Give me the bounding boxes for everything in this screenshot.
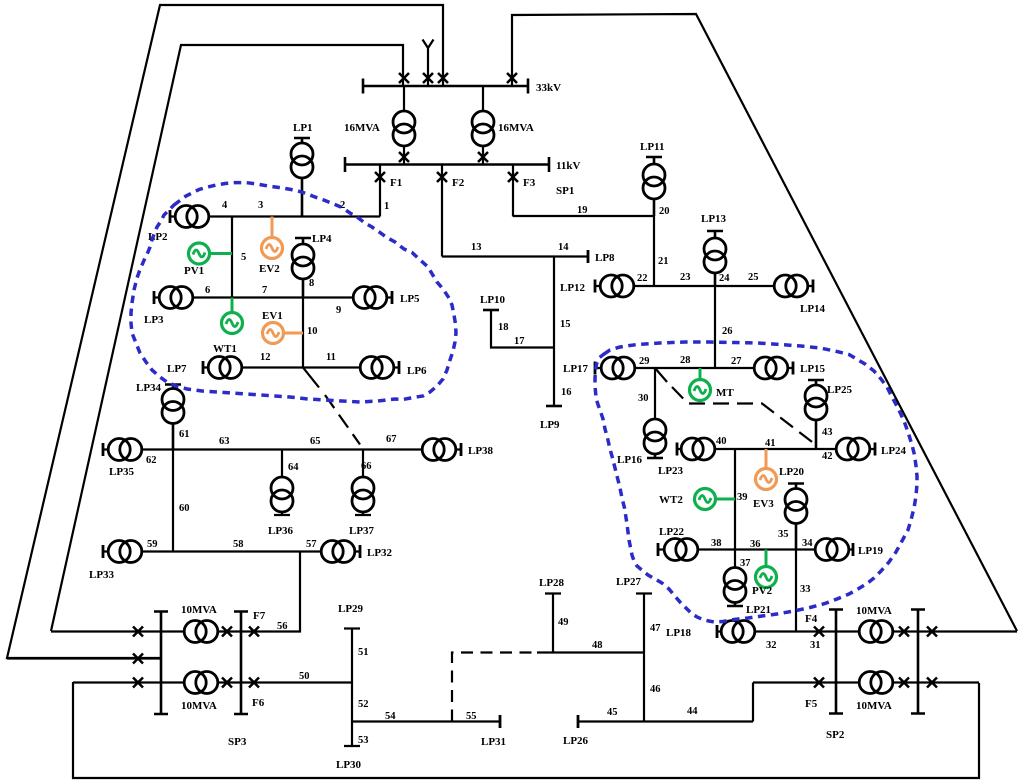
- breaker F3: [508, 165, 518, 217]
- wire line 60: [172, 450, 174, 552]
- svg-text:42: 42: [822, 451, 833, 462]
- svg-text:LP16: LP16: [617, 454, 643, 466]
- transformer T2 16MVA: [472, 86, 494, 164]
- svg-text:9: 9: [336, 305, 341, 316]
- svg-text:EV3: EV3: [753, 498, 774, 510]
- wire feeder bus 54-55: [352, 720, 500, 722]
- svg-text:23: 23: [680, 272, 691, 283]
- wire outer boundary top-right loop: [512, 14, 1017, 631]
- load LP34: [162, 385, 184, 450]
- load LP33: [103, 541, 142, 563]
- EV3 source: [756, 449, 777, 490]
- wire line 17-18: [491, 310, 554, 348]
- svg-text:10MVA: 10MVA: [181, 700, 217, 712]
- svg-text:LP30: LP30: [336, 759, 362, 771]
- wire line 26: [714, 286, 716, 368]
- load LP6: [360, 357, 399, 379]
- load LP31 terminal: [499, 715, 501, 728]
- svg-text:LP10: LP10: [480, 294, 506, 306]
- load LP4: [292, 238, 314, 298]
- svg-text:58: 58: [233, 539, 244, 550]
- svg-text:LP21: LP21: [746, 604, 771, 616]
- wire feeder bus 40-41-42: [677, 448, 875, 450]
- svg-text:13: 13: [471, 242, 482, 253]
- breaker F7 X left: [133, 627, 143, 637]
- svg-text:30: 30: [638, 393, 649, 404]
- node SP3 busbar right: [234, 612, 248, 715]
- svg-text:LP36: LP36: [268, 525, 294, 537]
- svg-text:63: 63: [219, 436, 230, 447]
- svg-text:27: 27: [731, 356, 742, 367]
- load LP17: [595, 357, 635, 379]
- transformer SP3 top 10MVA: [184, 621, 259, 643]
- wire feeder bus 22-25: [595, 285, 813, 287]
- breaker X middle stub: [133, 654, 143, 664]
- wire line 10: [302, 298, 304, 368]
- wire feeder bus 61-67: [103, 448, 461, 450]
- svg-text:40: 40: [716, 436, 727, 447]
- svg-text:LP5: LP5: [400, 293, 420, 305]
- microgrid boundary left (blue dashed): [131, 183, 456, 402]
- svg-text:65: 65: [310, 436, 321, 447]
- svg-text:4: 4: [222, 200, 228, 211]
- wire inner boundary top-left loop: [51, 45, 403, 631]
- svg-text:24: 24: [719, 273, 730, 284]
- svg-text:39: 39: [737, 492, 748, 503]
- svg-text:43: 43: [822, 427, 833, 438]
- svg-text:EV2: EV2: [259, 263, 280, 275]
- svg-text:32: 32: [766, 640, 777, 651]
- svg-text:LP11: LP11: [640, 141, 664, 153]
- svg-text:57: 57: [306, 539, 317, 550]
- load LP19: [815, 539, 853, 561]
- load LP26 terminal: [577, 715, 579, 728]
- load LP5: [353, 287, 392, 309]
- svg-text:LP3: LP3: [144, 314, 164, 326]
- load LP16: [644, 419, 666, 458]
- breaker F5: [814, 678, 824, 688]
- svg-text:LP9: LP9: [540, 419, 560, 431]
- svg-text:16MVA: 16MVA: [344, 122, 380, 134]
- svg-text:12: 12: [260, 352, 271, 363]
- transformer T1 16MVA: [393, 86, 415, 164]
- wire line 20-21: [653, 216, 655, 286]
- svg-text:LP8: LP8: [595, 252, 615, 264]
- wire outer boundary top-left loop: [7, 5, 443, 658]
- load LP8: [554, 250, 588, 263]
- svg-text:44: 44: [687, 706, 698, 717]
- load LP22: [658, 539, 698, 561]
- svg-text:LP22: LP22: [659, 526, 685, 538]
- load LP25: [805, 380, 827, 449]
- svg-text:LP33: LP33: [89, 569, 115, 581]
- svg-text:WT1: WT1: [213, 343, 237, 355]
- svg-text:LP34: LP34: [136, 382, 162, 394]
- svg-text:53: 53: [358, 735, 369, 746]
- svg-text:52: 52: [358, 699, 369, 710]
- svg-text:F4: F4: [805, 613, 818, 625]
- svg-text:19: 19: [577, 205, 588, 216]
- svg-text:8: 8: [309, 278, 314, 289]
- svg-text:50: 50: [299, 671, 310, 682]
- svg-text:LP27: LP27: [616, 576, 642, 588]
- wire middle stub row: [7, 657, 161, 659]
- svg-text:LP13: LP13: [701, 213, 727, 225]
- wire feeder bus 6-7-9: [154, 296, 392, 298]
- wire feeder bus 1-2-3-4: [170, 215, 380, 217]
- svg-text:WT2: WT2: [659, 494, 683, 506]
- svg-text:41: 41: [765, 438, 776, 449]
- wire feeder bus 45-44: [578, 720, 753, 722]
- wire grid infeed arrow: [423, 40, 434, 87]
- svg-text:31: 31: [810, 640, 821, 651]
- microgrid boundary right (blue dashed): [595, 342, 917, 622]
- svg-text:15: 15: [560, 319, 571, 330]
- svg-text:5: 5: [241, 252, 246, 263]
- svg-text:67: 67: [386, 434, 397, 445]
- breaker F6 X left: [133, 678, 143, 688]
- wire feeder bus 12-11: [203, 366, 399, 368]
- svg-text:LP1: LP1: [293, 122, 313, 134]
- wire tie 55-48 dashed: [452, 653, 537, 722]
- wire line 19: [513, 215, 655, 217]
- svg-text:10MVA: 10MVA: [856, 605, 892, 617]
- wire tie 12-66 dashed: [303, 368, 360, 445]
- load LP12: [595, 275, 634, 297]
- load LP1: [291, 138, 313, 217]
- svg-text:14: 14: [558, 242, 569, 253]
- svg-text:LP20: LP20: [779, 466, 805, 478]
- svg-text:21: 21: [658, 256, 669, 267]
- load LP24: [836, 438, 875, 460]
- svg-text:64: 64: [288, 462, 299, 473]
- transformer SP2 top 10MVA: [859, 621, 937, 643]
- svg-text:66: 66: [361, 461, 372, 472]
- wire tie 29-43 dashed: [655, 368, 816, 445]
- wire step bus44 to F5 row: [752, 683, 754, 722]
- wire feeder bus 59-58-57: [103, 550, 360, 552]
- EV2 source: [262, 217, 283, 259]
- svg-text:16MVA: 16MVA: [498, 122, 534, 134]
- wire line 13: [442, 255, 554, 257]
- svg-text:38: 38: [711, 538, 722, 549]
- load LP37 line 66: [352, 450, 374, 516]
- svg-text:LP29: LP29: [338, 603, 364, 615]
- load LP15: [754, 357, 793, 379]
- load LP3: [154, 287, 193, 309]
- wire bus 51-52-53: [344, 629, 360, 747]
- svg-text:37: 37: [740, 558, 751, 569]
- svg-text:LP38: LP38: [468, 445, 494, 457]
- svg-text:LP24: LP24: [881, 445, 907, 457]
- load LP23: [677, 438, 715, 460]
- load LP7: [203, 357, 242, 379]
- svg-text:F1: F1: [390, 177, 402, 189]
- svg-text:36: 36: [750, 539, 761, 550]
- EV1 source: [263, 323, 304, 344]
- svg-text:F2: F2: [452, 177, 465, 189]
- svg-text:LP37: LP37: [349, 525, 375, 537]
- svg-text:LP14: LP14: [800, 303, 826, 315]
- breaker X on 33kV bus feed 3: [438, 73, 448, 83]
- wire feeder 50 row F6: [73, 681, 352, 683]
- node 11kV busbar SP1: [345, 157, 549, 172]
- svg-text:20: 20: [659, 206, 670, 217]
- svg-text:25: 25: [748, 272, 759, 283]
- svg-text:17: 17: [514, 336, 525, 347]
- svg-text:51: 51: [358, 647, 369, 658]
- breaker F1: [375, 165, 385, 217]
- svg-text:LP32: LP32: [367, 547, 393, 559]
- svg-text:7: 7: [262, 285, 267, 296]
- wire feeder bus 38-36-34: [658, 548, 853, 550]
- load LP9 terminal: [546, 405, 562, 407]
- wire line 15-16: [553, 257, 555, 407]
- svg-text:11kV: 11kV: [556, 160, 581, 172]
- svg-text:LP23: LP23: [658, 465, 684, 477]
- svg-text:10MVA: 10MVA: [181, 604, 217, 616]
- svg-text:F6: F6: [252, 697, 265, 709]
- svg-text:LP17: LP17: [563, 363, 589, 375]
- wire line 39-37: [734, 449, 736, 568]
- node 33kV busbar: [363, 79, 528, 94]
- wire feeder F5 row: [753, 681, 979, 683]
- load LP14: [774, 275, 813, 297]
- MT source: [690, 368, 711, 401]
- WT1 source: [222, 298, 243, 334]
- svg-text:54: 54: [385, 711, 396, 722]
- svg-text:LP31: LP31: [481, 736, 506, 748]
- wire line 5: [231, 217, 233, 298]
- svg-text:LP4: LP4: [312, 233, 332, 245]
- PV2 source: [756, 550, 777, 588]
- breaker F2: [437, 165, 447, 257]
- svg-text:55: 55: [466, 711, 477, 722]
- svg-text:34: 34: [802, 538, 813, 549]
- svg-text:F5: F5: [805, 698, 818, 710]
- svg-text:SP1: SP1: [556, 185, 574, 197]
- svg-text:MT: MT: [716, 387, 734, 399]
- svg-text:LP12: LP12: [560, 282, 586, 294]
- svg-text:SP3: SP3: [228, 736, 247, 748]
- load LP10 terminal: [483, 309, 499, 311]
- svg-text:LP25: LP25: [827, 384, 853, 396]
- svg-text:LP28: LP28: [539, 577, 565, 589]
- wire line 48: [537, 651, 644, 653]
- svg-text:16: 16: [561, 387, 572, 398]
- svg-text:26: 26: [722, 326, 733, 337]
- load LP35: [103, 439, 142, 461]
- svg-text:49: 49: [558, 617, 569, 628]
- wire bottom loop: [73, 682, 979, 778]
- svg-text:LP35: LP35: [109, 466, 135, 478]
- svg-text:10: 10: [307, 326, 318, 337]
- svg-text:LP7: LP7: [167, 363, 187, 375]
- transformer SP2 bottom 10MVA: [859, 672, 937, 694]
- load LP11: [643, 157, 665, 216]
- svg-text:29: 29: [639, 356, 650, 367]
- WT2 source: [695, 489, 736, 510]
- svg-text:PV2: PV2: [752, 585, 773, 597]
- svg-text:56: 56: [277, 621, 288, 632]
- svg-text:62: 62: [146, 455, 157, 466]
- svg-text:LP19: LP19: [858, 545, 884, 557]
- wire line 30: [654, 368, 656, 419]
- svg-text:SP2: SP2: [826, 729, 845, 741]
- node SP2 busbar right: [911, 610, 925, 714]
- breaker X on 33kV bus feed 2 (arrow feeder): [423, 73, 433, 83]
- transformer SP3 bottom 10MVA: [184, 672, 259, 694]
- svg-text:61: 61: [179, 429, 190, 440]
- svg-text:LP26: LP26: [563, 735, 589, 747]
- wire line 46-47: [636, 594, 652, 722]
- svg-text:48: 48: [592, 640, 603, 651]
- node SP2 busbar left: [829, 610, 843, 714]
- svg-text:59: 59: [147, 539, 158, 550]
- svg-text:1: 1: [384, 201, 389, 212]
- svg-text:11: 11: [326, 352, 336, 363]
- svg-text:LP18: LP18: [666, 627, 692, 639]
- svg-text:33kV: 33kV: [536, 82, 561, 94]
- load LP18: [717, 621, 755, 643]
- svg-text:F7: F7: [253, 610, 266, 622]
- svg-text:6: 6: [205, 285, 210, 296]
- svg-text:LP15: LP15: [800, 363, 826, 375]
- svg-text:PV1: PV1: [184, 265, 204, 277]
- svg-text:35: 35: [778, 529, 789, 540]
- wire feeder bus 29-28-27: [595, 367, 793, 369]
- svg-text:22: 22: [637, 273, 648, 284]
- svg-text:47: 47: [650, 623, 661, 634]
- load LP32: [321, 541, 360, 563]
- load LP21: [724, 568, 746, 607]
- load LP20: [785, 484, 807, 550]
- svg-text:F3: F3: [523, 177, 536, 189]
- svg-text:46: 46: [650, 684, 661, 695]
- load LP28 line 49: [545, 594, 561, 653]
- svg-text:60: 60: [179, 503, 190, 514]
- load LP38: [422, 439, 461, 461]
- wire feeder 56 row F7: [51, 552, 300, 632]
- svg-text:33: 33: [800, 584, 811, 595]
- breaker F4: [814, 627, 824, 637]
- node SP3 busbar left: [154, 612, 168, 715]
- load LP13: [704, 231, 726, 286]
- svg-text:10MVA: 10MVA: [856, 700, 892, 712]
- breaker X on 33kV bus feed 1: [399, 73, 409, 83]
- svg-text:LP6: LP6: [407, 365, 427, 377]
- svg-text:3: 3: [258, 200, 263, 211]
- wire line 33: [795, 550, 797, 632]
- load LP36 line 64: [271, 450, 293, 516]
- PV1 source: [189, 243, 233, 264]
- breaker X on 33kV bus feed 4: [507, 73, 517, 83]
- svg-text:28: 28: [680, 355, 691, 366]
- svg-text:45: 45: [607, 707, 618, 718]
- load LP2: [170, 206, 209, 228]
- svg-text:EV1: EV1: [262, 310, 283, 322]
- svg-text:18: 18: [498, 322, 509, 333]
- wire feeder bus 32-31: [717, 630, 1017, 632]
